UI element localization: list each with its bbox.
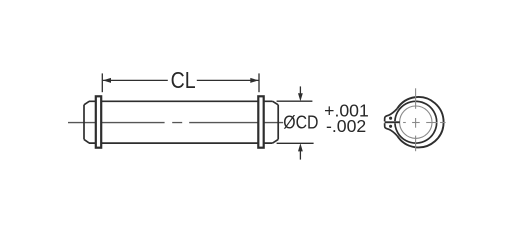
svg-text:-.002: -.002 [326,116,366,136]
svg-text:ØCD: ØCD [283,113,318,133]
svg-text:CL: CL [171,67,196,93]
